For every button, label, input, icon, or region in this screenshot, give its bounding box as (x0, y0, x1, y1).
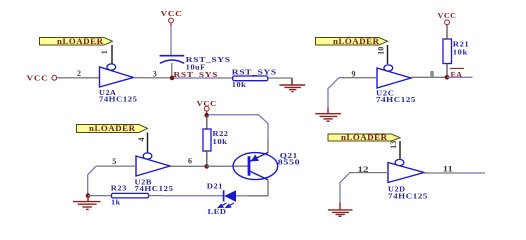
net label EA (overline) (450, 68, 464, 79)
svg-text:10: 10 (377, 47, 386, 55)
svg-text:D21: D21 (207, 182, 223, 191)
power VCC (R22, points down) (197, 99, 218, 114)
power VCC (top, capacitor branch) (161, 9, 183, 26)
op-amp U2C 74HC125 buffer (376, 65, 416, 104)
svg-text:11: 11 (443, 164, 453, 173)
resistor RST_SYS 10k (232, 67, 277, 89)
wire collector to LED anode (248, 195, 268, 197)
node EA junction (445, 75, 450, 80)
wire junction to R23 (88, 195, 112, 197)
pin 3 wire (U2A output) (134, 77, 171, 79)
svg-text:EA: EA (451, 70, 463, 79)
R22 pin top (206, 115, 208, 129)
power VCC (left, U2A input) (27, 73, 57, 82)
ground (U2B input / R23) (73, 196, 101, 210)
resistor R21 10k (443, 39, 469, 64)
svg-text:6: 6 (188, 157, 192, 166)
svg-text:74HC125: 74HC125 (376, 95, 416, 104)
wire pin9 to ground (328, 78, 339, 108)
svg-text:13: 13 (389, 141, 398, 149)
resistor pin left (218, 77, 233, 79)
svg-text:VCC: VCC (27, 73, 49, 82)
ground (right of RST_SYS resistor) (279, 79, 305, 92)
svg-text:nLOADER: nLOADER (341, 133, 388, 142)
wire flag to U2B enable bubble (147, 133, 149, 153)
op-amp U2A 74HC125 buffer (99, 64, 138, 104)
svg-text:5: 5 (112, 157, 116, 166)
pin 6 wire (U2B output) (170, 165, 206, 167)
flag nLOADER (U2B enable) (77, 124, 148, 133)
svg-text:9: 9 (352, 70, 356, 79)
svg-text:3: 3 (153, 70, 157, 79)
wire VCC junction to Q21 emitter (208, 115, 268, 140)
svg-text:74HC125: 74HC125 (388, 191, 428, 200)
svg-text:1k: 1k (111, 198, 121, 207)
svg-text:1: 1 (100, 50, 109, 54)
node ground junction (86, 193, 91, 198)
wire R23 to LED (163, 195, 223, 197)
svg-text:8: 8 (430, 70, 434, 79)
wire junction to resistor (174, 77, 218, 79)
node R22/base junction (204, 164, 209, 169)
svg-text:74HC125: 74HC125 (99, 95, 138, 104)
node VCC/R22 junction (204, 113, 209, 118)
svg-text:nLOADER: nLOADER (89, 124, 136, 133)
diode D21 LED (207, 182, 236, 217)
svg-text:10k: 10k (453, 47, 468, 56)
wire pin5 to ground node (88, 166, 97, 194)
wire output 11 (463, 172, 485, 174)
flag nLOADER (U2C enable) (316, 37, 388, 46)
capacitor C RST_SYS 10uF (160, 55, 231, 72)
pin 12 wire (U2D input) (350, 172, 388, 174)
wire flag to U2A enable bubble (111, 45, 113, 64)
wire flag to U2D enable bubble (399, 141, 401, 159)
svg-text:4: 4 (137, 138, 146, 142)
R23 pin right (149, 195, 163, 197)
flag nLOADER (U2A enable) (40, 37, 113, 46)
pin 11 wire (U2D output) (424, 172, 463, 174)
wire pin12 to ground (340, 173, 350, 203)
node RST_SYS junction (170, 76, 175, 81)
pin 9 wire (U2C input) (339, 77, 377, 79)
svg-text:LED: LED (208, 207, 227, 216)
wire EA output (447, 76, 473, 78)
wire to LED anode (blue) (236, 195, 248, 197)
resistor R23 1k (111, 183, 149, 206)
wire junction to Q21 base (207, 165, 249, 167)
svg-text:10k: 10k (213, 137, 228, 146)
resistor R22 10k (203, 129, 229, 151)
ground (U2C input) (315, 108, 341, 122)
wire VCC to capacitor (170, 26, 172, 49)
R21 pin top (446, 28, 448, 40)
svg-text:nLOADER: nLOADER (57, 37, 104, 46)
resistor pin right + wire to ground (268, 78, 292, 85)
pin 5 wire (U2B input) (96, 165, 136, 167)
R22 pin bottom (206, 151, 208, 165)
capacitor pin (bottom) (171, 63, 173, 78)
svg-text:R23: R23 (111, 183, 127, 192)
svg-text:2: 2 (77, 69, 81, 78)
capacitor pin (top) (170, 49, 172, 56)
transistor Q2 8550 (233, 151, 300, 180)
flag nLOADER (U2D enable) (328, 133, 400, 142)
Q21 emitter pin (267, 140, 269, 153)
svg-text:10k: 10k (232, 80, 247, 89)
svg-text:74HC125: 74HC125 (135, 184, 174, 193)
svg-text:nLOADER: nLOADER (333, 37, 380, 46)
pin 8 wire (U2C output) (411, 76, 447, 78)
wire flag to U2C enable bubble (387, 45, 389, 64)
svg-text:VCC: VCC (161, 9, 183, 18)
ground (U2D input) (328, 202, 353, 216)
R21 pin bottom (446, 64, 448, 76)
pin 2 wire (U2A input) (57, 77, 99, 79)
svg-text:8550: 8550 (278, 158, 301, 167)
Q21 collector pin (267, 180, 269, 196)
power VCC (R21) (438, 11, 457, 27)
svg-text:VCC: VCC (438, 11, 457, 20)
op-amp U2B 74HC125 buffer (135, 153, 174, 193)
svg-text:12: 12 (358, 165, 369, 174)
op-amp U2D 74HC125 buffer (388, 159, 428, 200)
svg-text:RST_SYS: RST_SYS (232, 67, 277, 76)
